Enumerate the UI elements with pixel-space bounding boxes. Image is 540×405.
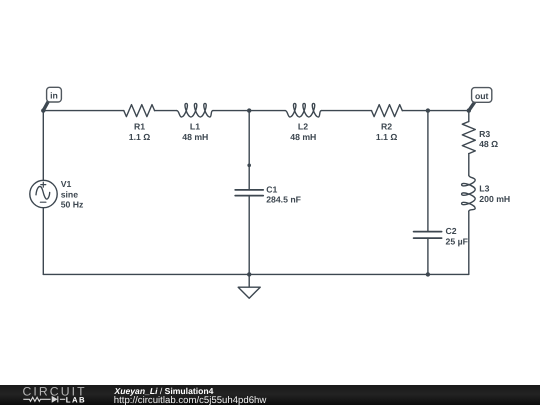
svg-text:1.1 Ω: 1.1 Ω xyxy=(129,132,150,142)
svg-text:in: in xyxy=(50,91,58,101)
svg-text:50 Hz: 50 Hz xyxy=(61,200,84,210)
svg-text:R2: R2 xyxy=(381,121,392,131)
svg-text:sine: sine xyxy=(61,189,79,199)
svg-text:200 mH: 200 mH xyxy=(479,194,510,204)
svg-text:http://circuitlab.com/c5j55uh4: http://circuitlab.com/c5j55uh4pd6hw xyxy=(114,395,267,405)
svg-text:C1: C1 xyxy=(266,184,277,194)
svg-text:L3: L3 xyxy=(479,184,489,194)
svg-text:out: out xyxy=(475,91,489,101)
svg-text:V1: V1 xyxy=(61,179,72,189)
svg-text:284.5 nF: 284.5 nF xyxy=(266,195,301,205)
svg-text:48 Ω: 48 Ω xyxy=(479,139,498,149)
svg-text:L1: L1 xyxy=(190,121,200,131)
svg-text:1.1 Ω: 1.1 Ω xyxy=(376,132,397,142)
svg-text:25 µF: 25 µF xyxy=(446,237,468,247)
svg-text:L2: L2 xyxy=(298,121,308,131)
svg-text:R3: R3 xyxy=(479,129,490,139)
svg-text:C2: C2 xyxy=(446,226,457,236)
svg-text:R1: R1 xyxy=(134,121,145,131)
svg-text:LAB: LAB xyxy=(66,396,86,405)
svg-text:48 mH: 48 mH xyxy=(290,132,316,142)
svg-text:48 mH: 48 mH xyxy=(182,132,208,142)
